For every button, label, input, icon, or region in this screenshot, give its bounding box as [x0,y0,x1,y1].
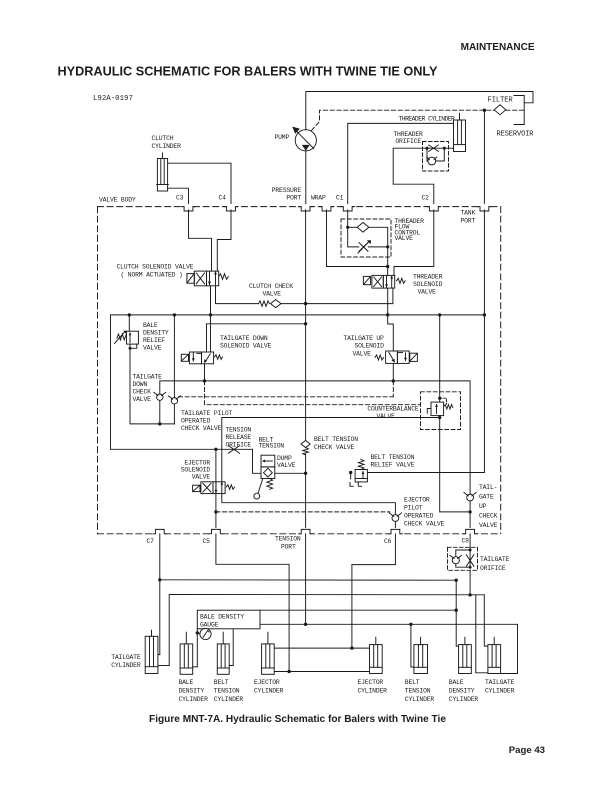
label EJECTOR SOLENOID VALVE [181,460,211,481]
node tailgate down work junction [203,379,206,382]
label BELT TENSION CHECK VALVE [314,436,358,451]
wire ejector pilot dashed [216,511,390,513]
svg-text:OPERATED: OPERATED [404,513,434,520]
svg-text:CYLINDER: CYLINDER [449,696,479,703]
wire counterbalance to ejector valve top [222,418,440,482]
wire tension line horizontal [233,623,517,625]
svg-text:BALE DENSITY: BALE DENSITY [200,614,244,621]
svg-text:HYDRAULIC SCHEMATIC FOR BALERS: HYDRAULIC SCHEMATIC FOR BALERS WITH TWIN… [58,65,438,79]
wire C1 port to threader cylinder rod end [348,123,454,203]
node belt tension R tap [409,623,412,626]
svg-text:BELT: BELT [405,679,420,686]
wire C3 to clutch valve [189,210,212,271]
svg-text:EJECTOR: EJECTOR [184,460,210,467]
label BELT TENSION CYLINDER left [214,679,244,703]
wire bale drop to bale density cylinder R [456,580,458,646]
label EJECTOR CYLINDER left [254,679,284,694]
svg-text:TAILGATE DOWN: TAILGATE DOWN [220,335,268,342]
wire bus to tailgate down valve [210,315,212,352]
svg-text:EJECTOR: EJECTOR [404,497,430,504]
SECTION: header [58,42,535,103]
svg-text:PORT: PORT [286,195,301,202]
label COUNTERBALANCE VALVE [367,406,419,421]
port C7 [153,529,167,535]
wire relief valve drain down and to check valve junction [130,348,175,424]
node tank bus right end [483,313,486,316]
wire orifice line through ejector valve to C5 [215,449,217,527]
bale density relief valve [115,315,139,350]
node dump outlet pressure junction [304,472,307,475]
wire ejector cylinders top link [274,647,369,649]
wire pilot dashed upper [179,396,394,398]
port C5 [209,529,223,535]
filter F1 [494,105,506,115]
label TENSION RELEASE ORIFICE [226,427,252,449]
node pressure tailgate feed [304,322,307,325]
svg-text:VALVE: VALVE [479,522,498,529]
svg-text:FILTER: FILTER [488,97,514,105]
svg-text:MAINTENANCE: MAINTENANCE [461,42,535,53]
label BALE DENSITY GAUGE [200,614,244,629]
port C8 [463,529,477,535]
svg-text:CHECK VALVE: CHECK VALVE [404,521,445,528]
svg-text:BELT TENSION: BELT TENSION [314,436,358,443]
svg-text:THREADER CYLINDER: THREADER CYLINDER [399,116,456,123]
wire ejector valve right port to C6 check [222,494,396,515]
wire pump to pressure port [305,151,307,204]
wire flow control to threader solenoid valve [387,247,389,276]
label THREADER FLOW CONTROL VALVE [395,218,425,242]
label TAILGATE ORIFICE [480,556,510,572]
svg-text:CYLINDER: CYLINDER [254,687,284,694]
svg-text:CLUTCH: CLUTCH [152,135,174,142]
node wrap junction [386,265,389,268]
svg-text:UP: UP [479,503,487,510]
port TENSION [299,529,313,535]
node bus pilot check [173,313,176,316]
port C3 [182,204,196,211]
svg-text:CHECK VALVE: CHECK VALVE [314,444,355,451]
belt tension dump valve [254,455,275,499]
node bus bale density relief [128,313,131,316]
svg-text:GATE: GATE [479,494,494,501]
svg-text:THREADER: THREADER [393,131,423,138]
svg-text:VALVE: VALVE [277,462,296,469]
belt tension relief valve [349,459,367,486]
label TAILGATE UP CHECK VALVE [479,484,498,529]
label BALE DENSITY RELIEF VALVE [143,322,169,352]
wire into tailgate cylinder L rod end [158,665,169,667]
svg-text:RELEASE: RELEASE [226,434,252,441]
svg-text:DOWN: DOWN [133,381,148,388]
tailgate down check valve [154,392,166,424]
svg-text:DUMP: DUMP [277,455,292,462]
wire C5 down and jog [216,534,289,672]
node tailgate up work junction [392,379,395,382]
svg-text:C7: C7 [147,538,155,545]
svg-text:CYLINDER: CYLINDER [405,696,435,703]
label CLUTCH SOLENOID VALVE (NORM ACTUATED) [117,264,194,279]
port C1 [341,204,355,211]
svg-text:ORIFICE: ORIFICE [395,138,421,145]
label THREADER ORIFICE [393,131,423,145]
port WRAP [320,204,334,211]
clutch cylinder [157,153,169,191]
port C4 [224,204,238,211]
svg-text:VALVE BODY: VALVE BODY [99,197,136,204]
wire tension to belt tension cylinder L [229,624,233,665]
svg-text:TANK: TANK [461,210,476,217]
label BALE DENSITY CYLINDER left [179,679,209,703]
svg-text:WRAP: WRAP [311,195,326,202]
svg-text:BALE: BALE [179,679,194,686]
label TAILGATE DOWN CHECK VALVE [133,374,163,404]
svg-text:RELIEF: RELIEF [143,337,165,344]
label TAILGATE PILOT OPERATED CHECK VALVE [181,410,233,432]
wire clutch valve right port to clutch check valve to pressure [216,286,259,304]
wire tension to tailgate cylinder R rod side [501,624,518,673]
svg-text:TAILGATE: TAILGATE [111,654,141,661]
label BELT TENSION RELIEF VALVE [371,454,415,469]
svg-text:VALVE: VALVE [395,235,414,242]
label BALE DENSITY CYLINDER right [449,679,479,703]
svg-text:TENSION: TENSION [259,443,285,450]
svg-text:CYLINDER: CYLINDER [214,696,244,703]
svg-text:SOLENOID: SOLENOID [355,343,385,350]
svg-text:DENSITY: DENSITY [179,687,205,694]
svg-text:C4: C4 [219,195,227,202]
svg-text:DENSITY: DENSITY [449,687,475,694]
svg-text:CYLINDER: CYLINDER [179,696,209,703]
svg-text:RESERVOIR: RESERVOIR [497,131,535,139]
label BELT TENSION CYLINDER right [405,679,435,703]
svg-text:C8: C8 [462,538,470,545]
reservoir [514,96,524,125]
svg-text:RELIEF VALVE: RELIEF VALVE [371,462,415,469]
node ejector top junction [350,646,353,649]
wire C7 down [159,534,161,655]
node ejector rod junction [287,670,290,673]
wire C1 down to flow control valve [347,210,349,227]
svg-text:VALVE: VALVE [192,474,211,481]
tailgate up check valve [464,492,476,527]
svg-text:( NORM ACTUATED ): ( NORM ACTUATED ) [121,272,183,279]
node ejector pilot tap [214,510,217,513]
svg-text:TAILGATE: TAILGATE [480,556,510,563]
node bus counterbalance [438,313,441,316]
svg-text:TENSION: TENSION [214,687,240,694]
wire tank line lower [367,210,484,473]
wire C7 into tailgate cylinder L [158,654,160,656]
wire bale line horizontal [160,579,456,581]
wire bus to tailgate up valve jog [388,315,394,351]
wire C8 to tailgate orifice [469,534,471,550]
bale density cylinder left [180,632,193,674]
svg-text:ORIFICE: ORIFICE [480,565,506,572]
tailgate down solenoid valve [181,352,222,364]
wire to tailgate cylinder R top [484,595,488,646]
svg-text:BALE: BALE [449,679,464,686]
svg-text:TAIL-: TAIL- [479,484,497,491]
label CLUTCH CHECK VALVE [249,283,293,298]
wire dump valve outlet right [275,472,306,474]
node counterbalance to check line [468,510,471,513]
svg-text:PUMP: PUMP [275,134,290,141]
label BELT TENSION DUMP VALVE [259,437,296,470]
wire tension line down [305,534,307,625]
threader solenoid valve [363,275,405,288]
node orifice pilot tap [214,448,217,451]
wire gauge line horizontal [260,609,456,611]
svg-text:CYLINDER: CYLINDER [152,143,182,150]
wire tailgate down valve bottom to work line [204,364,206,381]
node bus threader valve [386,313,389,316]
bale density cylinder right [459,637,472,673]
label CLUTCH CYLINDER [152,135,182,150]
svg-text:C3: C3 [176,195,184,202]
svg-text:CHECK VALVE: CHECK VALVE [181,425,222,432]
node tension branch [304,623,307,626]
node C7 branch [158,578,161,581]
svg-text:TAILGATE: TAILGATE [133,374,163,381]
svg-text:COUNTERBALANCE: COUNTERBALANCE [367,406,419,413]
svg-text:PRESSURE: PRESSURE [272,187,302,194]
wire tailgate work line [160,381,470,494]
svg-text:BELT TENSION: BELT TENSION [371,454,415,461]
svg-text:VALVE: VALVE [377,413,396,420]
svg-text:BALE: BALE [143,322,158,329]
svg-text:C2: C2 [422,195,430,202]
svg-text:CHECK: CHECK [133,389,152,396]
label EJECTOR PILOT OPERATED CHECK VALVE [404,497,445,528]
wire WRAP port to junction [327,210,388,267]
svg-text:Page 43: Page 43 [509,745,545,756]
wire threader valve left port to tank bus [387,288,389,314]
svg-text:Figure MNT-7A. Hydraulic Schem: Figure MNT-7A. Hydraulic Schematic for B… [149,714,446,725]
wire tank bus [111,315,485,449]
ejector solenoid valve [193,482,235,494]
tailgate up solenoid valve [375,351,417,363]
label TAILGATE UP SOLENOID VALVE [344,335,385,358]
wire pump-to-reservoir top line [306,92,533,130]
svg-text:VALVE: VALVE [263,291,282,298]
wire tank line upper [483,110,485,203]
svg-text:ORIFICE: ORIFICE [226,442,252,449]
tailgate cylinder left [145,630,158,673]
threader orifice assembly [423,142,449,172]
tailgate orifice [448,547,478,570]
tension release orifice [228,446,239,454]
belt tension check valve [301,441,310,528]
pump P1 [292,127,316,151]
wire gauge into bale density cylinder L [193,666,198,668]
wire tension to belt tension cylinder R [411,624,414,667]
svg-text:CHECK: CHECK [479,513,498,520]
wire pilot dashed tailgate up drop [392,381,394,397]
node drain-tank junction [483,109,486,112]
wire filter dashed drain line [312,110,525,130]
bale density gauge [196,610,260,667]
wire ejector cylinders rod link [274,671,369,673]
SECTION: captions [149,714,545,756]
threader flow control valve [341,219,391,257]
wire orifice to dump valve [253,449,262,473]
counterbalance valve [421,315,461,512]
wire clutch valve left port down to tank bus [210,286,212,315]
svg-text:CLUTCH CHECK: CLUTCH CHECK [249,283,293,290]
wire threader cylinder cap end to orifice [444,147,453,149]
node bale line right [455,579,458,582]
node clutch check to pressure line [304,302,307,305]
label TAILGATE DOWN SOLENOID VALVE [220,335,272,350]
port PRESSURE [299,204,313,211]
wire tailgate orifice down [469,570,471,595]
node gauge line right [455,609,458,612]
svg-text:C5: C5 [203,538,211,545]
valve body dashed boundary [98,207,501,534]
wire C6 down and jog [352,534,396,648]
svg-text:VALVE: VALVE [143,345,162,352]
clutch check valve [259,300,306,308]
wire clutch cylinder cap end to C3 [168,188,189,203]
svg-text:PILOT: PILOT [404,505,423,512]
threader cylinder [454,113,466,151]
belt tension cylinder left [217,632,229,674]
svg-text:CYLINDER: CYLINDER [358,687,388,694]
svg-text:TENSION: TENSION [226,427,252,434]
wire orifice drop to tailgate cylinder R rod end [476,595,488,673]
ejector cylinder right [370,637,383,673]
wire C2 to threader solenoid valve top right [394,210,434,276]
svg-text:C6: C6 [384,538,392,545]
wire tailgate rod line horizontal [169,595,484,666]
label TAILGATE CYLINDER right [485,679,515,694]
svg-text:SOLENOID: SOLENOID [181,467,211,474]
svg-text:TAILGATE UP: TAILGATE UP [344,335,385,342]
svg-text:VALVE: VALVE [418,289,437,296]
svg-text:TAILGATE PILOT: TAILGATE PILOT [181,410,233,417]
wire pilot dashed to counterbalance [205,381,421,405]
wire pressure line main vertical [305,210,307,441]
node bus clutch-tailgate line [209,313,212,316]
svg-text:CYLINDER: CYLINDER [485,687,515,694]
ejector cylinder left [262,632,275,674]
node orifice drop junction [468,593,471,596]
port C6 [388,529,402,535]
label TAILGATE CYLINDER left [111,654,141,669]
tailgate cylinder right [488,637,501,673]
wire clutch cylinder rod end to C4 [168,163,231,203]
svg-text:OPERATED: OPERATED [181,418,211,425]
svg-text:SOLENOID: SOLENOID [413,281,443,288]
svg-text:VALVE: VALVE [353,351,372,358]
svg-text:GAUGE: GAUGE [200,622,219,629]
svg-text:TENSION: TENSION [275,536,301,543]
svg-text:TAILGATE: TAILGATE [485,679,515,686]
port C2 [427,204,441,211]
wire threader valve right port to clutch check junction [306,288,393,304]
wire tailgate up valve bottom to work line [392,363,394,381]
label THREADER SOLENOID VALVE [413,274,443,296]
svg-text:CYLINDER: CYLINDER [111,662,141,669]
svg-text:VALVE: VALVE [133,396,152,403]
label EJECTOR CYLINDER right [358,679,388,694]
svg-text:BELT: BELT [214,679,229,686]
svg-text:C1: C1 [336,195,344,202]
wire pressure to tailgate down valve [207,324,306,352]
svg-text:PORT: PORT [461,218,476,225]
clutch solenoid valve [187,271,228,286]
svg-text:EJECTOR: EJECTOR [254,679,280,686]
wire C2 port to threader orifice [393,148,434,203]
svg-text:SOLENOID VALVE: SOLENOID VALVE [220,343,272,350]
wire tank bus bottom leg to orifice line [111,448,253,450]
node drain junction [158,422,161,425]
wire counterbalance bottom leg [440,511,470,513]
port TANK [477,204,491,211]
belt tension cylinder right [414,637,428,673]
svg-text:L92A-0197: L92A-0197 [93,95,133,103]
svg-text:THREADER: THREADER [413,274,443,281]
svg-text:DENSITY: DENSITY [143,330,169,337]
tailgate pilot operated check valve [168,315,180,424]
svg-text:TENSION: TENSION [405,687,431,694]
ejector pilot operated check valve [389,513,401,528]
svg-text:EJECTOR: EJECTOR [358,679,384,686]
svg-text:PORT: PORT [281,544,296,551]
svg-text:CLUTCH SOLENOID VALVE: CLUTCH SOLENOID VALVE [117,264,194,271]
wire C4 to clutch valve [217,210,231,271]
